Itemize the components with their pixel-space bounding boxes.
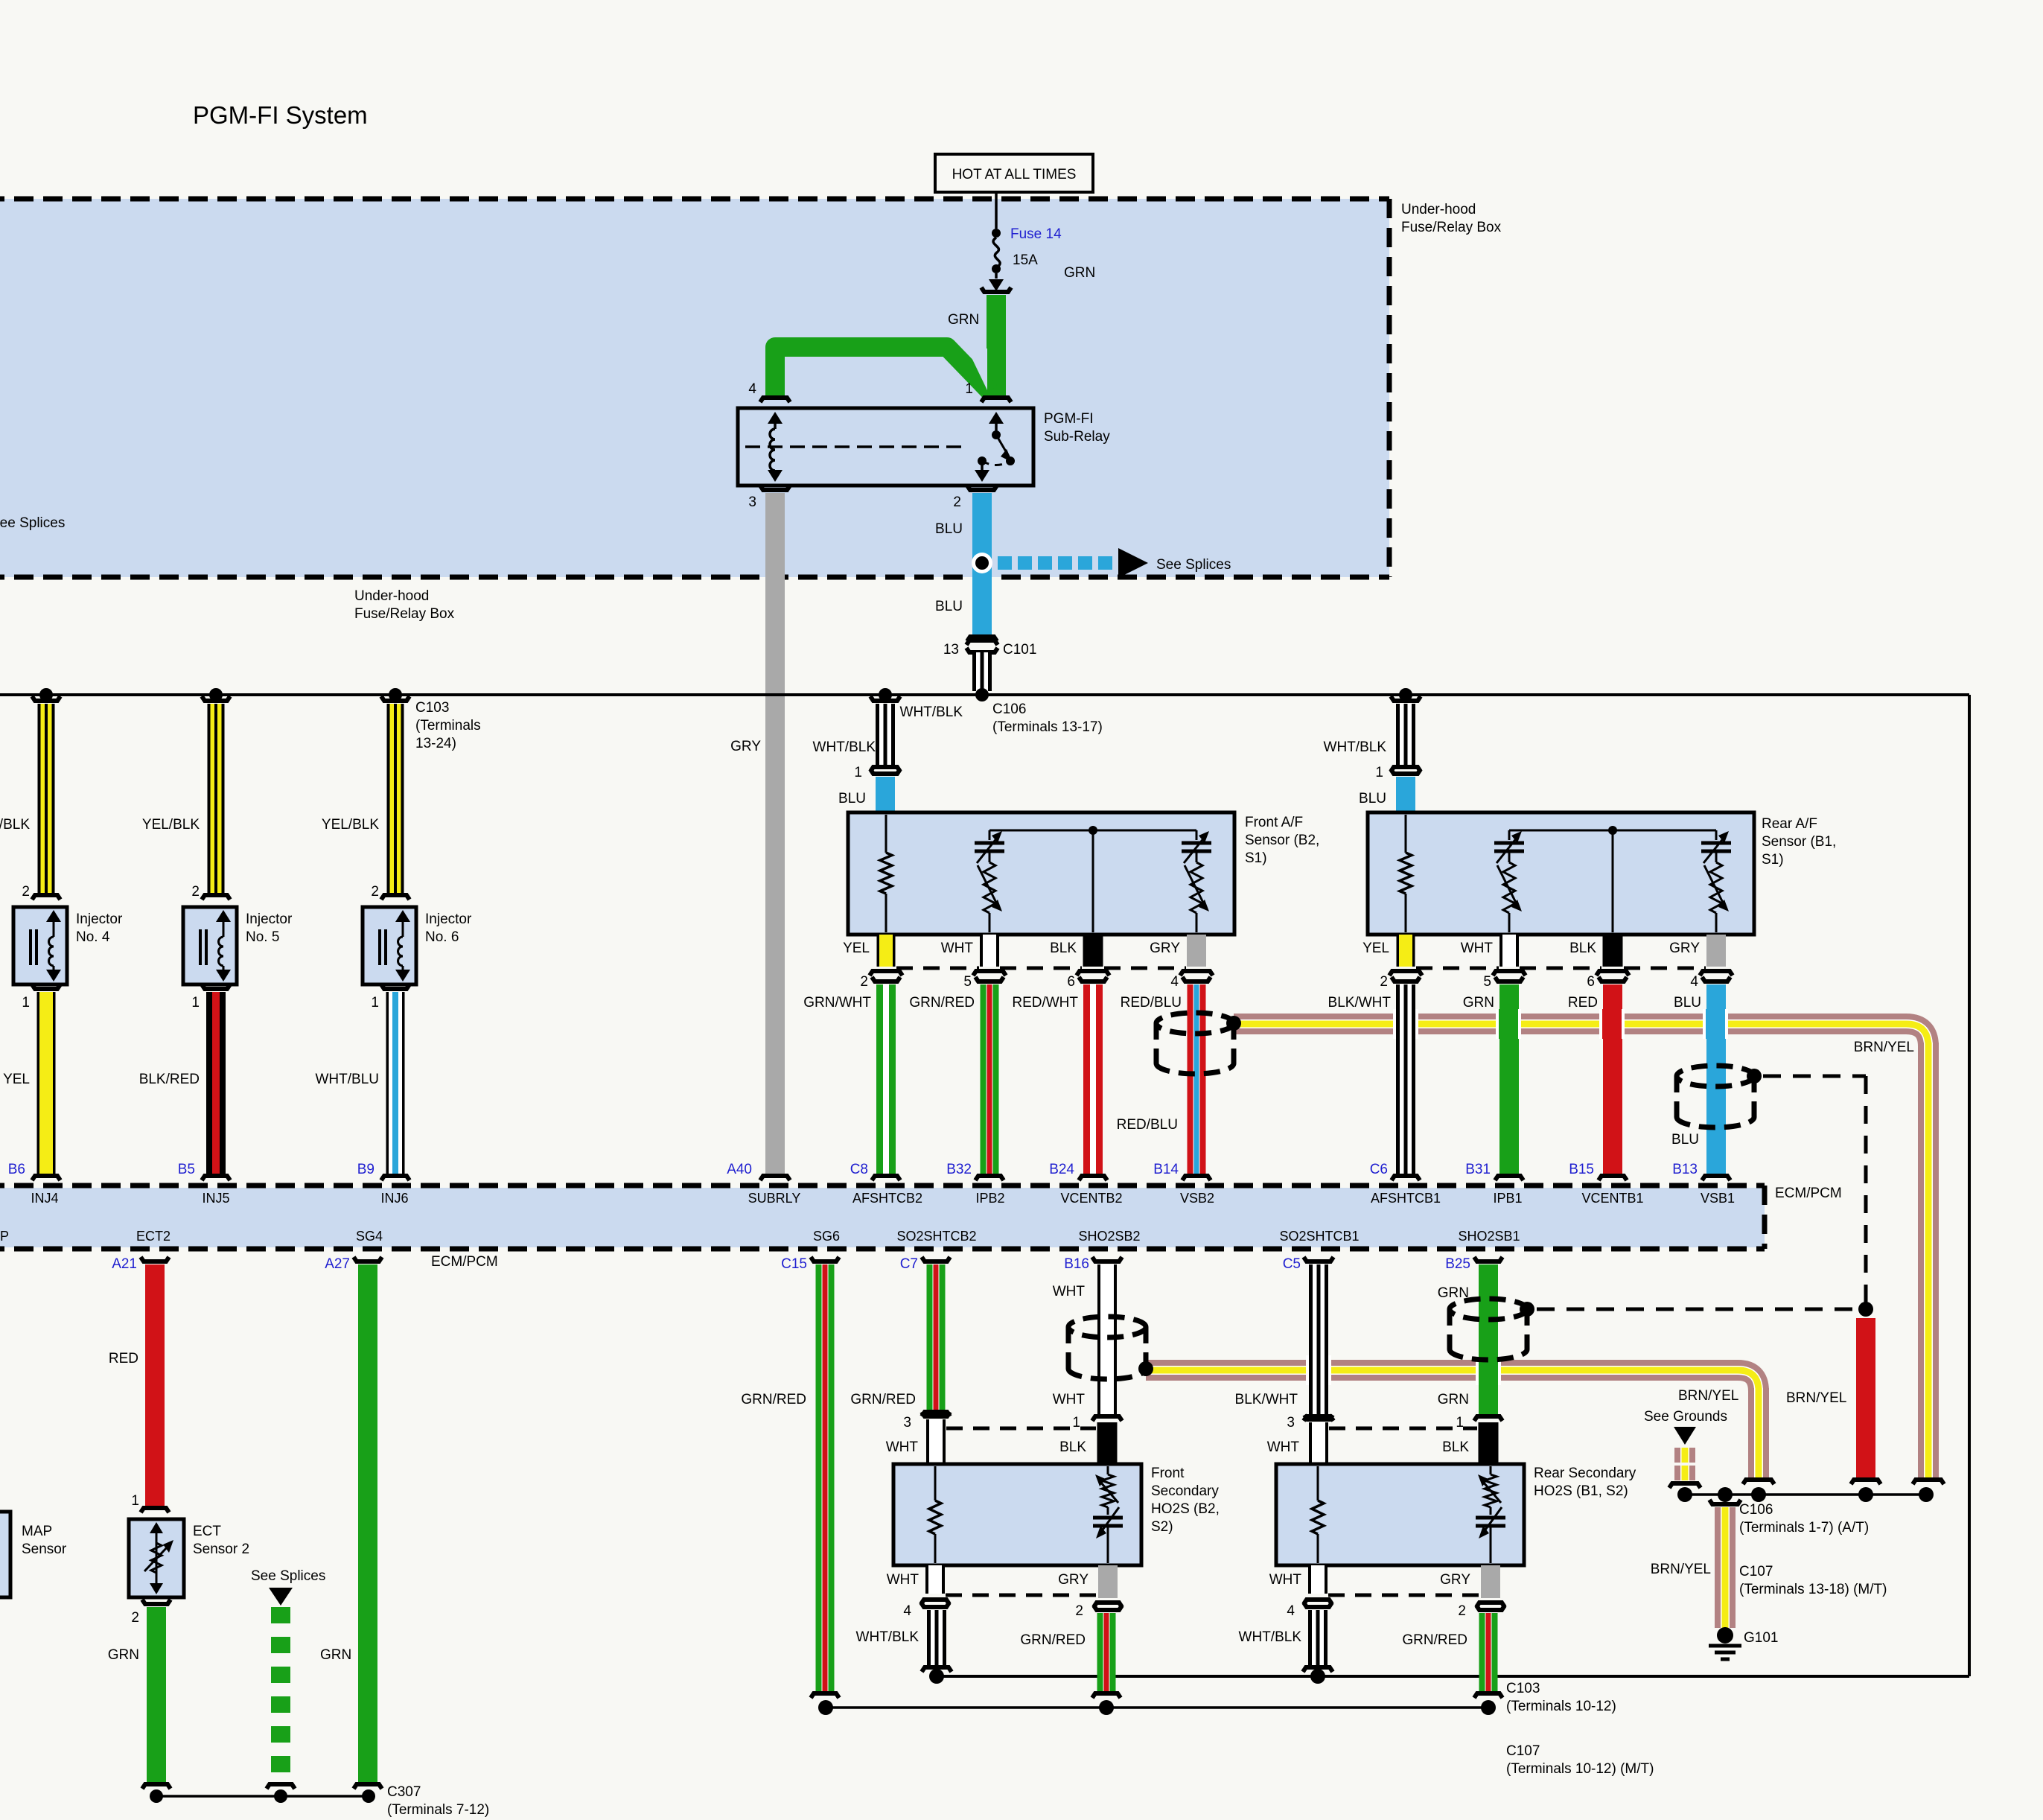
svg-text:ECT2: ECT2 [136,1229,170,1244]
label front A/F sensor [1245,815,1319,866]
svg-text:SHO2SB1: SHO2SB1 [1458,1229,1520,1244]
label Fuse 14 [1010,226,1062,242]
svg-text:HOT AT ALL TIMES: HOT AT ALL TIMES [952,167,1077,182]
label GRN/WHT [803,995,871,1011]
svg-text:YEL: YEL [843,941,870,956]
svg-text:1: 1 [22,995,30,1011]
wire WHT/BLK rear sec to boundary [1303,1610,1333,1684]
relay PGM-FI Sub-Relay box [738,408,1033,486]
see grounds triangle [1674,1427,1696,1445]
see splices triangle (C307) [251,1568,325,1606]
label 5 (A/F pin at x=1329) [963,974,972,990]
pin label B32 [946,1162,972,1177]
svg-text:WHT: WHT [1053,1284,1086,1299]
wire RED shield drain to ground bus [1851,1318,1881,1484]
svg-text:BLK/RED: BLK/RED [139,1072,200,1087]
fuse F14 [989,192,1004,291]
svg-text:6: 6 [1067,974,1075,990]
ECM/PCM band dashed borders [0,1186,1765,1249]
label BRN/YEL (right of red wire) [1786,1390,1846,1406]
label WHT (B16) [1053,1284,1086,1299]
dashed shield path VSB1 to RED [1763,1076,1873,1317]
label 13 (C101) [943,642,959,658]
ECM/PCM band bottom pin names [0,1229,1520,1244]
label 1 (front secondary) [1072,1415,1080,1431]
wire GRN/WHT A/F pin to band (x=1190) [870,971,902,1180]
svg-text:Under-hood: Under-hood [354,588,429,604]
svg-text:Sensor (B2,: Sensor (B2, [1245,833,1319,848]
noise suppressor on B25 wire [1450,1299,1534,1360]
svg-text:GRN: GRN [1463,995,1494,1011]
svg-text:WHT/BLK: WHT/BLK [1239,1629,1302,1645]
injector INJ5 internals [200,910,231,981]
under-hood fuse/relay box dashed border [0,199,1389,577]
svg-text:BLK: BLK [1569,941,1596,956]
label C101 [1003,642,1036,658]
svg-text:2: 2 [22,884,30,900]
label GRN (B25 below) [1438,1392,1469,1407]
wire BLK/WHT A/F pin to band (x=1888) [1389,971,1422,1180]
svg-text:Injector: Injector [425,911,472,927]
svg-text:SUBRLY: SUBRLY [748,1191,801,1206]
front secondary bottom stubs [921,1565,1122,1610]
svg-text:GRN: GRN [1064,265,1095,281]
svg-text:YEL: YEL [1362,941,1389,956]
svg-text:15A: 15A [1013,252,1038,268]
svg-text:WHT/BLK: WHT/BLK [813,739,876,755]
label WHT (rear sec bottom) [1269,1572,1302,1588]
svg-text:B16: B16 [1064,1256,1089,1272]
label 1 (rear A/F) [1375,765,1383,780]
svg-text:1: 1 [1456,1415,1464,1431]
svg-text:A21: A21 [112,1256,137,1272]
label BLK (A/F pin at x=2166) [1569,941,1596,956]
svg-text:Fuse/Relay Box: Fuse/Relay Box [1401,220,1502,235]
svg-text:B24: B24 [1049,1162,1074,1177]
svg-text:GRN: GRN [948,312,979,328]
svg-text:BLK: BLK [1059,1439,1086,1455]
svg-text:2: 2 [953,494,961,510]
svg-text:VCENTB1: VCENTB1 [1581,1191,1643,1206]
svg-text:WHT: WHT [1461,941,1494,956]
svg-text:PGM-FI: PGM-FI [1044,411,1094,427]
label YEL (A/F pin at x=1190) [843,941,870,956]
svg-text:C107: C107 [1739,1564,1773,1579]
svg-text:AFSHTCB2: AFSHTCB2 [852,1191,922,1206]
injector INJ6 internals [380,910,410,981]
wire WHT/BLK front sec to boundary [922,1610,952,1684]
svg-text:S1): S1) [1762,852,1784,868]
svg-text:See Splices: See Splices [0,515,65,531]
svg-text:RED/BLU: RED/BLU [1117,1117,1178,1133]
svg-text:No. 5: No. 5 [246,929,279,945]
pin label B25 [1445,1256,1470,1272]
relay switch [975,412,1015,482]
pin label B14 [1153,1162,1179,1177]
injector INJ5 box [183,907,237,984]
label GRN/RED (rear sec) [1402,1632,1467,1648]
svg-text:P: P [0,1229,9,1244]
label 6 (A/F pin at x=1468) [1067,974,1075,990]
svg-text:C8: C8 [850,1162,868,1177]
svg-text:VCENTB2: VCENTB2 [1060,1191,1122,1206]
wire crossings over upper BRN/YEL run [1393,1009,1728,1039]
svg-text:VSB1: VSB1 [1701,1191,1735,1206]
rear A/F sensor box [1368,812,1754,935]
label BLU (below suppressor) [1671,1132,1699,1148]
svg-text:3: 3 [748,494,756,510]
svg-text:GRY: GRY [1440,1572,1470,1588]
svg-text:GRN/WHT: GRN/WHT [803,995,871,1011]
svg-text:INJ4: INJ4 [31,1191,58,1206]
label WHT (front sec bottom) [887,1572,919,1588]
svg-text:3: 3 [1287,1415,1295,1431]
title PGM-FI System [193,101,368,129]
svg-text:C106: C106 [1739,1502,1773,1518]
pin label B15 [1569,1162,1594,1177]
svg-text:RED/BLU: RED/BLU [1121,995,1182,1011]
wire WHT/BLU INJ6 to band [381,984,409,1180]
pin label B6 [8,1162,25,1177]
label YEL/BLK (INJ5) [142,817,200,833]
svg-text:C15: C15 [781,1256,807,1272]
svg-text:BLU: BLU [1671,1132,1699,1148]
wire YEL/BLK to INJ6 [381,696,409,900]
front secondary BLK stub [1097,1422,1118,1464]
svg-text:13-24): 13-24) [415,736,456,751]
svg-text:GRY: GRY [1150,941,1180,956]
svg-text:C307: C307 [387,1784,421,1800]
label 2 (INJ5) [191,884,200,900]
svg-text:Fuse/Relay Box: Fuse/Relay Box [354,606,455,622]
svg-text:1: 1 [131,1493,139,1509]
label See Grounds [1644,1409,1727,1425]
wire GRN/RED C7 to front secondary [922,1257,950,1416]
svg-text:MAP: MAP [22,1524,52,1539]
svg-text:B31: B31 [1465,1162,1491,1177]
svg-text:B5: B5 [178,1162,195,1177]
svg-text:B9: B9 [357,1162,375,1177]
svg-text:IPB2: IPB2 [975,1191,1004,1206]
svg-text:4: 4 [1690,974,1698,990]
svg-text:Rear A/F: Rear A/F [1762,816,1817,832]
svg-text:2: 2 [371,884,379,900]
HOT AT ALL TIMES box [935,154,1093,192]
label RED [1568,995,1598,1011]
label 1 (ECT) [131,1493,139,1509]
see splices blue dashed arrow [998,548,1148,578]
pin label A27 [325,1256,350,1272]
label 2 (A/F pin at x=1888) [1380,974,1388,990]
svg-text:Under-hood: Under-hood [1401,202,1476,217]
svg-text:C6: C6 [1370,1162,1388,1177]
wire WHT/BLK C106 to front A/F [870,696,900,771]
label BLK (front secondary) [1059,1439,1086,1455]
svg-text:1: 1 [1072,1415,1080,1431]
label BLK (rear secondary) [1442,1439,1469,1455]
label WHT/BLK (front A/F) [813,739,876,755]
svg-text:A27: A27 [325,1256,350,1272]
label MAP Sensor [22,1524,67,1557]
label 4 (rear sec) [1287,1603,1295,1619]
svg-text:Front: Front [1151,1466,1185,1481]
label RED/BLU (below suppressor) [1117,1117,1178,1133]
noise suppressor on B16 wire [1068,1317,1153,1379]
label BLK/RED (INJ5) [139,1072,200,1087]
svg-text:BLU: BLU [838,791,866,806]
wire RED A21 to ECT sensor [141,1257,169,1512]
rear secondary bottom stubs [1304,1565,1505,1610]
svg-text:Front A/F: Front A/F [1245,815,1303,830]
label GRY [730,739,761,754]
svg-text:BRN/YEL: BRN/YEL [1854,1040,1914,1055]
label BRN/YEL (upper corner) [1854,1040,1914,1055]
outer boundary bottom line [937,1675,1969,1678]
label RED (A21) [109,1351,138,1366]
svg-text:WHT/BLU: WHT/BLU [316,1072,380,1087]
svg-text:C101: C101 [1003,642,1036,658]
label 4 (A/F pin at x=2305) [1690,974,1698,990]
label 2 (relay pin 2) [953,494,961,510]
label WHT/BLK (rear sec) [1239,1629,1302,1645]
svg-text:WHT: WHT [887,1572,919,1588]
noise suppressor on VSB2 wire [1156,1013,1241,1074]
label ECM/PCM (below band) [431,1254,498,1270]
label 1 (relay pin 1) [965,381,973,397]
svg-text:4: 4 [903,1603,911,1619]
svg-text:WHT/BLK: WHT/BLK [856,1629,919,1645]
label 2 (INJ6) [371,884,379,900]
svg-text:C107: C107 [1506,1743,1540,1759]
label BLU (front A/F) [838,791,866,806]
label WHT/BLU (INJ6) [316,1072,380,1087]
label 2 (ECT) [131,1610,139,1626]
pin label A40 [727,1162,752,1177]
svg-text:BLK: BLK [1050,941,1077,956]
connector C307 line [150,1789,375,1803]
svg-text:BLU: BLU [1674,995,1701,1011]
svg-text:(Terminals 10-12): (Terminals 10-12) [1506,1699,1616,1714]
wire GRN A27 to C307 [354,1257,382,1789]
wire BRN/YEL upper shield run [1234,1014,1944,1484]
wire GRN dashed see-splices to C307 [267,1607,295,1789]
svg-text:G101: G101 [1744,1630,1778,1646]
wire RED/WHT A/F pin to band (x=1468) [1077,971,1109,1180]
label 2 (rear sec) [1458,1603,1466,1619]
svg-text:PGM-FI System: PGM-FI System [193,101,368,129]
label WHT (A/F pin at x=2027) [1461,941,1494,956]
svg-text:BLK/WHT: BLK/WHT [1235,1392,1298,1407]
svg-text:RED/WHT: RED/WHT [1012,995,1078,1011]
svg-text:Sub-Relay: Sub-Relay [1044,429,1110,445]
svg-text:HO2S (B2,: HO2S (B2, [1151,1501,1220,1517]
label 2 (A/F pin at x=1190) [860,974,868,990]
label GRY (A/F pin at x=1607) [1150,941,1180,956]
front secondary connector dashed [946,1427,1096,1431]
svg-text:2: 2 [1458,1603,1466,1619]
svg-text:(Terminals 1-7) (A/T): (Terminals 1-7) (A/T) [1739,1520,1869,1536]
svg-text:2: 2 [860,974,868,990]
svg-text:Injector: Injector [76,911,123,927]
svg-text:ECT: ECT [193,1524,221,1539]
svg-text:1: 1 [1375,765,1383,780]
svg-text:HO2S (B1, S2): HO2S (B1, S2) [1534,1483,1628,1499]
svg-text:ECM/PCM: ECM/PCM [431,1254,498,1270]
connector C106 dots [879,688,1412,701]
svg-text:GRN: GRN [1438,1392,1469,1407]
label rear secondary HO2S [1534,1466,1636,1499]
svg-text:GRY: GRY [1058,1572,1089,1588]
label BLK (A/F pin at x=1468) [1050,941,1077,956]
label GRY (A/F pin at x=2305) [1669,941,1700,956]
pin label C8 [850,1162,868,1177]
svg-text:GRN/RED: GRN/RED [1020,1632,1086,1648]
svg-text:B15: B15 [1569,1162,1594,1177]
wire GRN/RED rear sec to C103 [1474,1613,1502,1698]
wire GRN/RED front sec to C103 [1092,1613,1121,1698]
pin label B5 [178,1162,195,1177]
svg-text:BRN/YEL: BRN/YEL [1651,1562,1711,1577]
label 1 (INJ4) [22,995,30,1011]
svg-text:2: 2 [1380,974,1388,990]
under-hood fuse/relay box fill [0,199,1389,577]
svg-text:WHT: WHT [1053,1392,1086,1407]
label GRN (splice) [320,1647,351,1663]
pin label C7 [900,1256,918,1272]
label YEL (INJ4) [3,1072,30,1087]
label WHT/BLK (front sec) [856,1629,919,1645]
svg-text:13: 13 [943,642,959,658]
label C106 terminals 13-17 [992,701,1103,735]
label GRY (rear sec bottom) [1440,1572,1470,1588]
ECT sensor internals [144,1522,173,1594]
label 2 (front sec) [1075,1603,1083,1619]
injector INJ4 box [13,907,67,984]
label See Splices (arrow) [1156,557,1231,573]
svg-text:GRN/RED: GRN/RED [741,1392,806,1407]
connector C103 10-12 line [818,1700,1496,1715]
label YEL/BLK (INJ6) [322,817,379,833]
label BLU (below) [935,599,963,614]
label GRN [1463,995,1494,1011]
label GRN/RED (front sec) [1020,1632,1086,1648]
svg-text:S1): S1) [1245,850,1267,866]
wire YEL/BLK to INJ4 [32,696,60,900]
label ECM/PCM (right of band) [1775,1186,1842,1201]
svg-text:No. 4: No. 4 [76,929,110,945]
label 3 (rear secondary) [1287,1415,1295,1431]
wire BLK/WHT C5 to rear secondary [1304,1257,1333,1421]
label C106 terminals 1-7 [1739,1502,1869,1536]
svg-text:GRY: GRY [730,739,761,754]
label 1 (rear secondary) [1456,1415,1464,1431]
svg-text:C103: C103 [415,700,449,716]
svg-text:4: 4 [1170,974,1179,990]
svg-text:4: 4 [748,381,756,397]
label GRY (front sec bottom) [1058,1572,1089,1588]
wire BLK/RED INJ5 to band [202,984,230,1180]
ECT sensor 2 box [129,1519,184,1597]
wire WHT/BLK C106 to rear A/F [1391,696,1421,771]
svg-text:SO2SHTCB2: SO2SHTCB2 [896,1229,976,1244]
label 2 (INJ4) [22,884,30,900]
svg-text:Secondary: Secondary [1151,1483,1219,1499]
svg-text:BRN/YEL: BRN/YEL [1678,1388,1738,1404]
label injector INJ4 [76,911,123,945]
svg-text:GRY: GRY [1669,941,1700,956]
svg-text:B25: B25 [1445,1256,1470,1272]
connector C101 caps [966,640,998,652]
relay coil [768,412,783,482]
label WHT (B16 below) [1053,1392,1086,1407]
svg-text:C5: C5 [1283,1256,1301,1272]
svg-text:See Grounds: See Grounds [1644,1409,1727,1425]
label YEL (A/F pin at x=1888) [1362,941,1389,956]
svg-text:Sensor: Sensor [22,1541,67,1557]
label 3 (relay pin 3) [748,494,756,510]
label C103 terminals 13-24 [415,700,481,751]
svg-text:Sensor 2: Sensor 2 [193,1541,249,1557]
svg-text:A40: A40 [727,1162,752,1177]
pin label C5 [1283,1256,1301,1272]
outer boundary top line [0,693,1969,696]
svg-text:(Terminals 13-17): (Terminals 13-17) [992,719,1103,735]
injector INJ6 box [363,907,416,984]
svg-text:Fuse 14: Fuse 14 [1010,226,1062,242]
label rear A/F sensor [1762,816,1836,868]
pin label B16 [1064,1256,1089,1272]
svg-text:IPB1: IPB1 [1493,1191,1522,1206]
label BLK/WHT (C5) [1235,1392,1298,1407]
svg-text:INJ6: INJ6 [380,1191,408,1206]
label 1 (INJ6) [371,995,379,1011]
svg-text:Injector: Injector [246,911,293,927]
svg-text:B32: B32 [946,1162,972,1177]
svg-text:See Splices: See Splices [251,1568,325,1584]
label C107 terminals 10-12 [1506,1743,1654,1777]
svg-text:BLU: BLU [935,521,963,537]
svg-text:SO2SHTCB1: SO2SHTCB1 [1279,1229,1359,1244]
label under-hood fuse/relay box (right) [1401,202,1502,235]
svg-text:GRN/RED: GRN/RED [909,995,975,1011]
label PGM-FI Sub-Relay [1044,411,1110,445]
pin label B24 [1049,1162,1074,1177]
svg-text:2: 2 [1075,1603,1083,1619]
label 4 (front sec) [903,1603,911,1619]
svg-text:WHT/BLK: WHT/BLK [1324,739,1387,755]
wire RED/BLU A/F pin to band (x=1607) [1180,971,1213,1180]
noise suppressor on VSB1 wire [1677,1066,1762,1127]
svg-text:B6: B6 [8,1162,25,1177]
svg-text:No. 6: No. 6 [425,929,459,945]
label ECT Sensor 2 [193,1524,249,1557]
label 4 (relay pin 4) [748,381,756,397]
svg-text:1: 1 [854,765,862,780]
svg-text:WHT: WHT [1267,1439,1300,1455]
rear secondary BLK stub [1479,1422,1499,1464]
rear secondary connector dashed [1329,1427,1477,1431]
svg-text:5: 5 [1483,974,1491,990]
label injector INJ5 [246,911,293,945]
svg-text:RED: RED [1568,995,1598,1011]
svg-text:6: 6 [1587,974,1595,990]
wire BRN/YEL lower shield run [1146,1360,1774,1484]
wire GRN/RED A/F pin to band (x=1329) [973,971,1006,1180]
label WHT (rear secondary top) [1267,1439,1300,1455]
svg-text:WHT: WHT [1269,1572,1302,1588]
label 5 (A/F pin at x=2027) [1483,974,1491,990]
pin label B31 [1465,1162,1491,1177]
